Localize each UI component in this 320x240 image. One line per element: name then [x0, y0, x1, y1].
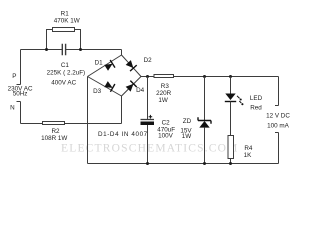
diode D4: [125, 81, 137, 93]
LED triangle: [225, 94, 235, 101]
zener diode ZD triangle: [199, 121, 209, 128]
bridge diamond edge bottom-left: [88, 77, 122, 97]
LED arrow 1: [237, 96, 240, 99]
svg-text:P: P: [12, 73, 16, 80]
bridge diamond edge top-left: [88, 55, 122, 77]
terminal P tick: [17, 84, 21, 86]
zener diode ZD cathode bar: [198, 117, 211, 124]
wire: LED to R4: [230, 102, 232, 136]
capacitor C2 plus plate: [141, 119, 155, 121]
node junction ZD bottom: [203, 162, 206, 165]
LED arrow 2: [239, 101, 241, 103]
svg-text:470K 1W: 470K 1W: [54, 17, 80, 24]
svg-text:100V: 100V: [158, 132, 174, 139]
wire: C2 branch upper: [147, 77, 149, 120]
svg-text:220R: 220R: [156, 90, 172, 97]
wire: drop to bridge top vertex: [121, 50, 123, 56]
resistor R4: [228, 136, 234, 159]
svg-text:D2: D2: [144, 57, 153, 64]
svg-text:D1: D1: [95, 59, 104, 66]
LED cathode bar: [225, 101, 236, 103]
wire: top rail right of C1: [66, 49, 122, 51]
terminal N tick: [17, 101, 21, 103]
svg-text:1W: 1W: [182, 133, 192, 140]
svg-text:R1: R1: [61, 10, 70, 17]
node junction R4 bottom: [229, 162, 232, 165]
diode D3: [104, 80, 115, 92]
wire: R1 right riser: [75, 30, 81, 50]
svg-text:Red: Red: [250, 104, 262, 111]
wire: R4 to bottom rail: [230, 159, 232, 164]
wire: P input vertical: [20, 50, 22, 85]
wire: R2 to bridge bottom: [65, 123, 122, 125]
node junction ZD top: [203, 75, 206, 78]
terminal minus tick: [275, 132, 279, 134]
wire: R1 left riser: [47, 30, 54, 50]
resistor R3: [154, 75, 174, 78]
svg-text:R3: R3: [161, 83, 170, 90]
wire: bottom rail: [88, 163, 279, 165]
wire: N to R2: [21, 123, 43, 125]
resistor R2: [43, 122, 65, 125]
capacitor C1: [62, 44, 65, 56]
svg-text:225K ( 2.2uF): 225K ( 2.2uF): [47, 70, 86, 77]
wire: zener branch upper: [204, 77, 206, 121]
svg-text:D1-D4 IN 4007: D1-D4 IN 4007: [98, 131, 148, 138]
svg-text:C2: C2: [162, 120, 171, 127]
wire: zener branch lower: [204, 128, 206, 164]
node junction LED top: [229, 75, 232, 78]
svg-text:LED: LED: [250, 95, 263, 102]
diode D1: [104, 60, 115, 72]
wire: bridge right vertex to R3: [141, 76, 154, 78]
svg-text:100 mA: 100 mA: [267, 123, 290, 130]
svg-text:400V AC: 400V AC: [51, 80, 76, 87]
wire: top rail left of C1: [21, 49, 63, 51]
svg-text:D4: D4: [136, 87, 145, 94]
svg-text:12 V DC: 12 V DC: [266, 113, 290, 120]
node junction left of C1: [45, 48, 48, 51]
node junction right of C1: [79, 48, 82, 51]
bridge diamond edge bottom-right: [122, 77, 142, 97]
svg-text:D3: D3: [93, 88, 102, 95]
svg-text:1W: 1W: [158, 97, 168, 104]
svg-text:R2: R2: [51, 128, 60, 135]
svg-text:50Hz: 50Hz: [13, 91, 28, 98]
wire: bridge bottom vertex down to R2 wire: [121, 96, 123, 124]
svg-text:R4: R4: [244, 145, 253, 152]
diode D2: [125, 59, 137, 71]
bridge diamond edge top-right: [122, 55, 142, 77]
svg-text:ZD: ZD: [183, 118, 192, 125]
wire: output plus terminal: [278, 77, 280, 106]
wire: right rail after R3: [174, 76, 279, 78]
wire: output minus terminal down: [278, 133, 280, 164]
C2 plus sign: [149, 115, 153, 119]
wire: C2 branch lower: [147, 125, 149, 164]
wire: bridge left vertex down to bottom rail: [87, 77, 89, 164]
wire: LED branch upper: [230, 77, 232, 94]
node junction C2 bottom: [146, 162, 149, 165]
wire: N input vertical: [20, 102, 22, 124]
resistor R1: [53, 28, 75, 32]
svg-text:108R 1W: 108R 1W: [41, 135, 67, 142]
node junction C2 top: [146, 75, 149, 78]
svg-text:C1: C1: [61, 62, 70, 69]
svg-text:N: N: [10, 104, 15, 111]
capacitor C2 negative plate: [141, 122, 155, 126]
terminal plus tick: [275, 105, 279, 107]
svg-text:1K: 1K: [244, 152, 253, 159]
